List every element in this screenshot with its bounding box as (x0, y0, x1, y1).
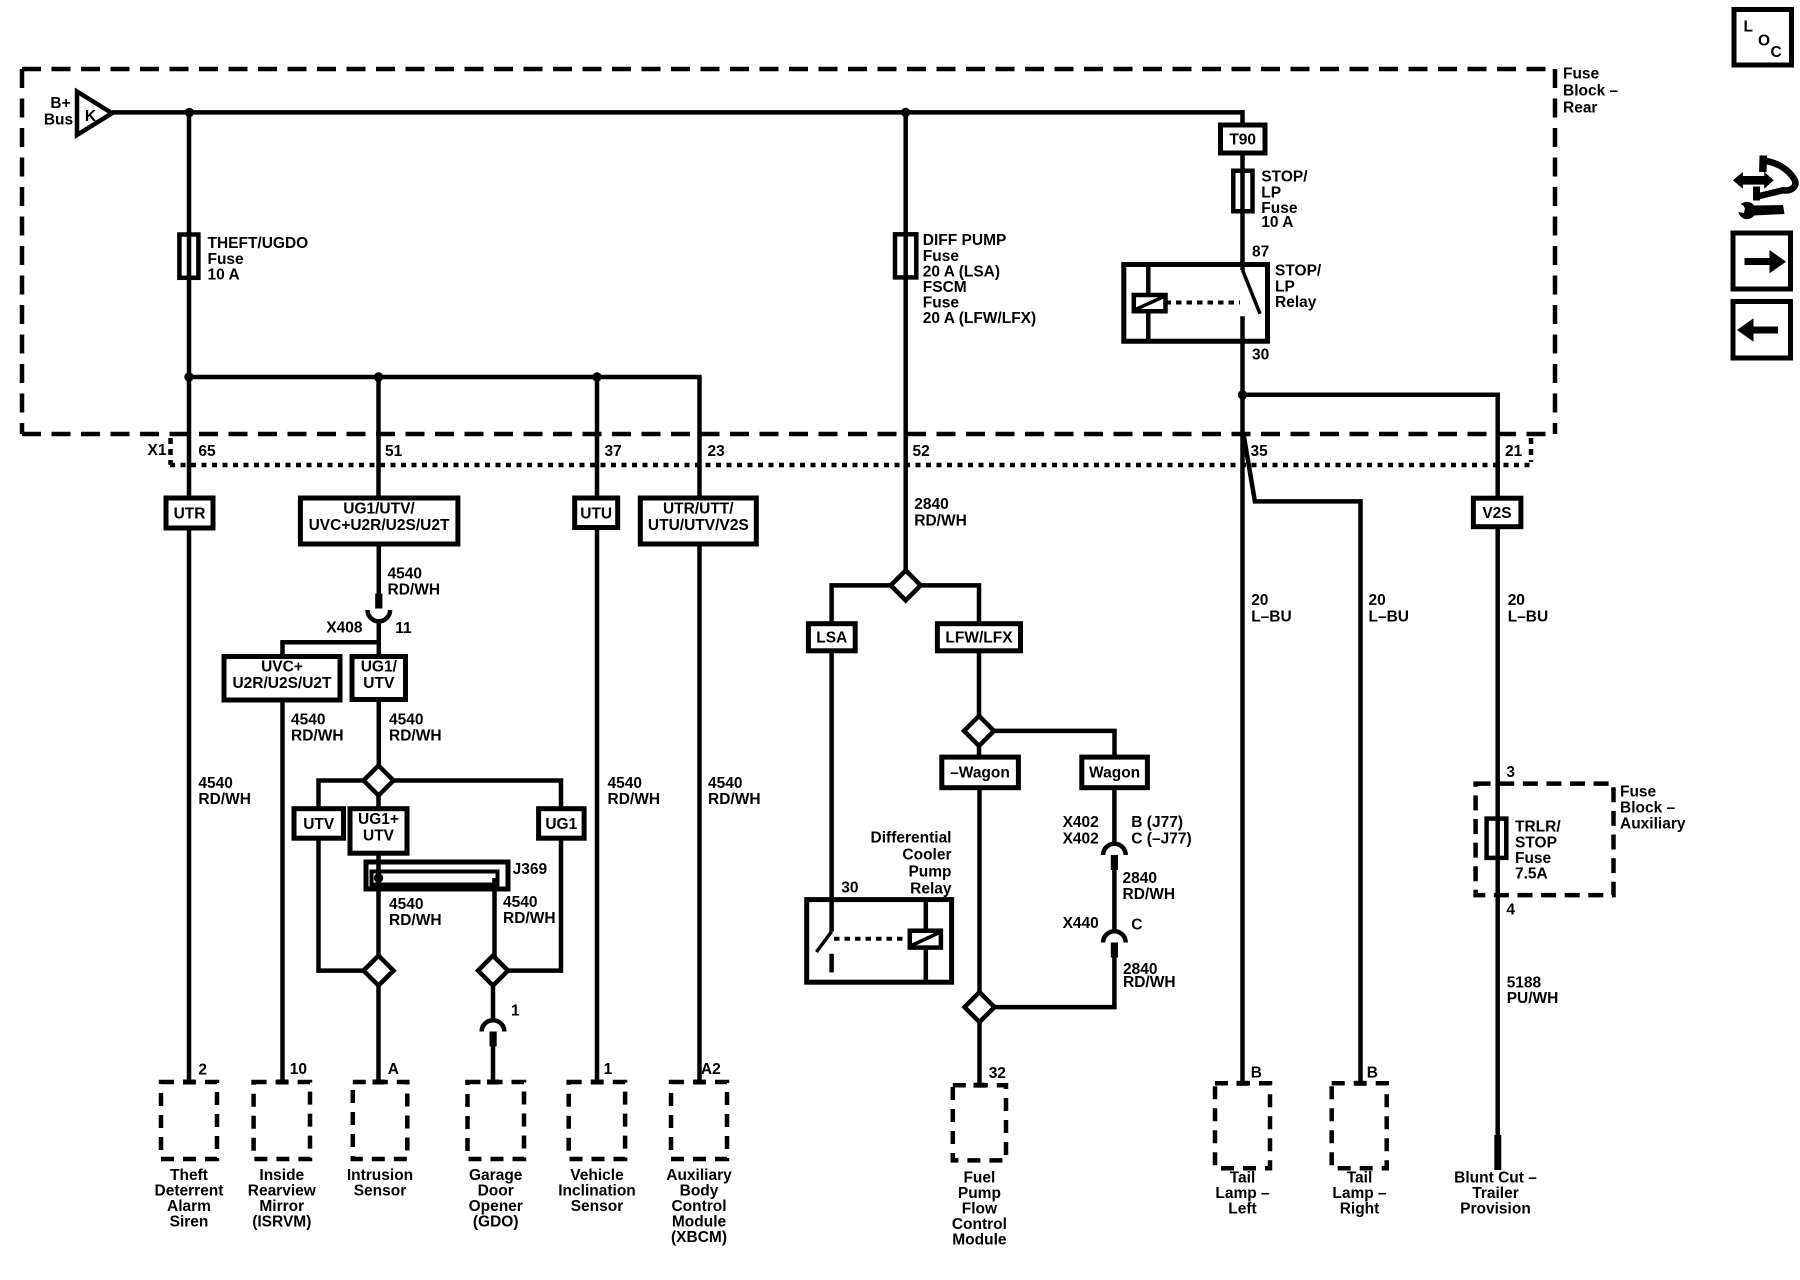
svg-text:LFW/LFX: LFW/LFX (945, 630, 1013, 647)
svg-text:LP: LP (1275, 279, 1295, 296)
svg-text:RD/WH: RD/WH (503, 910, 556, 927)
svg-text:B: B (1251, 1064, 1262, 1081)
wire to GDO connector (491, 986, 496, 1021)
wire diamond3 to FPFCM (977, 1022, 982, 1085)
wire 65 column to siren (187, 528, 192, 1082)
connector X408 pin 11 (326, 594, 412, 638)
svg-text:DIFF PUMP: DIFF PUMP (923, 232, 1007, 249)
svg-text:3: 3 (1506, 764, 1515, 781)
LFW/LFX box (937, 624, 1020, 651)
Auxiliary Body Control Module box (671, 1082, 727, 1159)
wire -Wagon to diamond3 (977, 788, 982, 992)
svg-text:(ISRVM): (ISRVM) (252, 1214, 311, 1231)
svg-text:Body: Body (680, 1183, 719, 1200)
STOP/LP fuse 10A (1233, 169, 1308, 232)
svg-text:L–BU: L–BU (1369, 609, 1409, 626)
svg-text:Inside: Inside (259, 1167, 304, 1184)
svg-text:Rearview: Rearview (248, 1183, 317, 1200)
junction dot (185, 108, 194, 117)
wire diamond to LFW/LFX (921, 585, 979, 623)
svg-text:Opener: Opener (469, 1198, 523, 1215)
svg-text:Right: Right (1340, 1200, 1380, 1217)
svg-text:21: 21 (1505, 443, 1523, 460)
UTU box (575, 498, 618, 528)
wire 51 below box (377, 544, 382, 595)
Intrusion Sensor box (353, 1082, 408, 1159)
svg-text:Module: Module (672, 1214, 727, 1231)
20 L-BU label left (1251, 592, 1291, 626)
svg-text:(XBCM): (XBCM) (671, 1229, 727, 1246)
svg-text:10 A: 10 A (208, 267, 240, 284)
4540 RD/WH label (503, 894, 556, 927)
svg-text:Tail: Tail (1230, 1169, 1256, 1186)
wire junction to pin 21 (1243, 395, 1498, 498)
svg-text:Trailer: Trailer (1472, 1185, 1519, 1202)
svg-text:RD/WH: RD/WH (389, 912, 442, 929)
Differential Cooler Pump Relay label (871, 830, 952, 898)
wire T90 to relay (1240, 153, 1245, 265)
Fuse Block - Auxiliary dashed box (1476, 784, 1614, 896)
junction dot (1238, 390, 1247, 399)
splice pack J369 (366, 861, 547, 889)
junction dot on J369 (374, 873, 383, 882)
svg-text:Mirror: Mirror (259, 1198, 304, 1215)
svg-text:RD/WH: RD/WH (389, 728, 442, 745)
svg-text:20: 20 (1369, 592, 1386, 609)
wire UG1 down (508, 838, 561, 970)
svg-text:37: 37 (605, 443, 622, 460)
Tail Lamp Right label (1332, 1169, 1387, 1217)
B+ Bus feed triangle K (44, 92, 112, 136)
2840 RD/WH label (1123, 870, 1176, 903)
20 L-BU label right (1508, 592, 1548, 626)
svg-text:30: 30 (841, 880, 858, 897)
svg-text:Intrusion: Intrusion (347, 1167, 413, 1184)
Tail Lamp Left box (1215, 1083, 1270, 1168)
svg-text:4540: 4540 (608, 775, 642, 792)
svg-text:X440: X440 (1063, 915, 1099, 932)
splice diamond 3 (965, 992, 995, 1022)
UVC+ U2R/U2S/U2T box (224, 657, 340, 701)
Garage Door Opener box (468, 1082, 525, 1159)
svg-text:11: 11 (395, 620, 412, 637)
svg-text:–Wagon: –Wagon (950, 765, 1010, 782)
svg-text:UVC+U2R/U2S/U2T: UVC+U2R/U2S/U2T (309, 517, 450, 534)
splice diamond 52 (891, 570, 921, 600)
connector pin 1 to GDO (482, 1003, 520, 1047)
Theft Deterrent Alarm Siren label (155, 1167, 224, 1231)
wire drop to T90 (1240, 110, 1245, 127)
svg-text:20: 20 (1508, 592, 1525, 609)
TRLR/STOP fuse 7.5A (1487, 819, 1562, 883)
svg-text:Block –: Block – (1563, 83, 1619, 100)
junction dot (592, 372, 601, 381)
svg-text:2840: 2840 (914, 496, 948, 513)
svg-text:65: 65 (198, 443, 216, 460)
svg-text:51: 51 (385, 443, 403, 460)
svg-text:Left: Left (1228, 1200, 1256, 1217)
UG1 box (539, 809, 585, 839)
wire terminal bars at component boxes (183, 1080, 1367, 1088)
svg-text:2840: 2840 (1123, 870, 1157, 887)
svg-text:4540: 4540 (503, 894, 537, 911)
svg-text:A: A (388, 1061, 399, 1078)
svg-text:(GDO): (GDO) (473, 1214, 519, 1231)
svg-text:RD/WH: RD/WH (388, 582, 441, 599)
left arrow icon (1733, 302, 1791, 359)
wire diamond to UG1 (394, 781, 562, 809)
svg-text:U2R/U2S/U2T: U2R/U2S/U2T (232, 675, 332, 692)
2840 RD/WH label pin52 (914, 496, 967, 530)
wire diamond to UTV (319, 781, 364, 809)
junction dot (184, 372, 193, 381)
svg-text:UTU: UTU (580, 506, 612, 523)
wire diamond to LSA (832, 585, 891, 623)
svg-text:V2S: V2S (1482, 505, 1511, 522)
svg-text:1: 1 (604, 1061, 613, 1078)
wire relay 30 to tail lamp left (1240, 341, 1245, 1083)
svg-text:LSA: LSA (816, 630, 847, 647)
svg-text:UTV: UTV (303, 816, 335, 833)
svg-text:Sensor: Sensor (571, 1198, 624, 1215)
20 L-BU label mid (1369, 592, 1409, 626)
svg-text:X1: X1 (148, 442, 167, 459)
svg-text:RD/WH: RD/WH (291, 728, 344, 745)
svg-text:RD/WH: RD/WH (1123, 974, 1176, 991)
svg-text:30: 30 (1252, 347, 1269, 364)
svg-text:4540: 4540 (389, 896, 423, 913)
svg-text:UG1/UTV/: UG1/UTV/ (343, 501, 415, 518)
4540 RD/WH label (388, 566, 441, 599)
svg-text:RD/WH: RD/WH (198, 791, 251, 808)
svg-text:Control: Control (671, 1198, 726, 1215)
wire V2S to blunt cut (1495, 527, 1500, 1137)
wire 37 column to sensor (595, 528, 600, 1083)
UTV box (294, 809, 344, 839)
4540 RD/WH label (708, 775, 761, 808)
STOP/LP relay (1124, 265, 1268, 342)
junction dot (374, 372, 383, 381)
svg-text:L: L (1744, 18, 1753, 35)
svg-text:1: 1 (511, 1003, 520, 1020)
wire to GDO box (491, 1047, 496, 1083)
wire UVC+ to ISRVM (280, 700, 285, 1082)
4540 RD/WH label (389, 896, 442, 929)
blunt cut end (1494, 1135, 1501, 1170)
svg-text:STOP/: STOP/ (1275, 263, 1322, 280)
Tail Lamp Right box (1332, 1083, 1387, 1168)
svg-text:UVC+: UVC+ (261, 659, 303, 676)
svg-text:Rear: Rear (1563, 100, 1597, 117)
V2S box (1473, 498, 1521, 527)
svg-text:Module: Module (952, 1231, 1007, 1248)
branch wire to tail lamp right (1244, 434, 1361, 1083)
svg-text:32: 32 (989, 1065, 1006, 1082)
splice diamond 2 (964, 716, 994, 746)
svg-text:Tail: Tail (1347, 1169, 1373, 1186)
svg-text:35: 35 (1251, 443, 1269, 460)
UG1/UTV/UVC+ box (300, 498, 458, 544)
Theft Deterrent Alarm Siren box (161, 1082, 217, 1159)
connector X402 (1063, 814, 1192, 870)
svg-text:Fuse: Fuse (923, 248, 960, 265)
svg-text:Relay: Relay (910, 881, 952, 898)
svg-text:X402: X402 (1063, 814, 1099, 831)
svg-text:UG1/: UG1/ (361, 659, 398, 676)
wire LSA to relay (829, 651, 834, 900)
Fuse Block - Auxiliary label (1620, 784, 1686, 833)
wire to intrusion sensor (376, 986, 381, 1082)
Fuse Block - Rear dashed box (22, 69, 1555, 434)
Garage Door Opener label (469, 1167, 523, 1231)
svg-text:20: 20 (1251, 592, 1268, 609)
4540 RD/WH label (389, 712, 442, 745)
svg-text:87: 87 (1252, 244, 1269, 261)
svg-text:4: 4 (1506, 902, 1515, 919)
wire pin 37 drop (595, 377, 600, 498)
svg-text:Auxiliary: Auxiliary (666, 1167, 732, 1184)
svg-text:C: C (1131, 917, 1142, 934)
LSA box (808, 624, 855, 651)
svg-text:Block –: Block – (1620, 800, 1676, 817)
Intrusion Sensor label (347, 1167, 413, 1200)
wire X402 to X440 (1112, 870, 1117, 932)
svg-text:Auxiliary: Auxiliary (1620, 816, 1686, 833)
svg-text:UG1: UG1 (545, 816, 577, 833)
svg-text:J369: J369 (513, 861, 548, 878)
wire X440 to diamond3 (995, 958, 1115, 1008)
main B+ bus wire (112, 110, 1243, 115)
svg-text:Differential: Differential (871, 830, 952, 847)
manifold wire 65-23 (189, 377, 700, 498)
wire 23 column to XBCM (697, 544, 702, 1082)
wire diamond2 to Wagon (994, 731, 1115, 757)
svg-text:20 A (LSA): 20 A (LSA) (923, 264, 1000, 281)
svg-text:Siren: Siren (170, 1214, 209, 1231)
svg-text:RD/WH: RD/WH (608, 791, 661, 808)
right arrow icon (1733, 233, 1791, 289)
svg-text:RD/WH: RD/WH (708, 791, 761, 808)
svg-text:Wagon: Wagon (1089, 765, 1140, 782)
svg-text:10 A: 10 A (1261, 214, 1293, 231)
wire diamond2 to -Wagon (977, 746, 982, 757)
svg-text:L–BU: L–BU (1251, 609, 1291, 626)
svg-text:Garage: Garage (469, 1167, 523, 1184)
4540 RD/WH label (291, 712, 344, 745)
svg-text:Pump: Pump (958, 1185, 1001, 1202)
Fuse Block - Rear label (1563, 66, 1619, 117)
splice diamond left (364, 956, 394, 986)
splice diamond (364, 766, 394, 796)
4540 RD/WH label (608, 775, 661, 808)
svg-text:T90: T90 (1229, 132, 1256, 149)
svg-text:Blunt Cut –: Blunt Cut – (1454, 1169, 1537, 1186)
junction dot (901, 108, 910, 117)
svg-text:STOP/: STOP/ (1261, 169, 1308, 186)
wire UTV down (319, 838, 364, 970)
svg-text:2: 2 (198, 1062, 207, 1079)
Auxiliary Body Control Module label (666, 1167, 732, 1246)
wire LFW/LFX to diamond2 (977, 651, 982, 716)
svg-text:23: 23 (708, 443, 726, 460)
Blunt Cut - Trailer Provision label (1454, 1169, 1537, 1217)
svg-text:52: 52 (913, 443, 930, 460)
UG1/UTV box (352, 657, 406, 700)
2840 RD/WH label (1123, 961, 1176, 991)
wire Wagon to X402 (1112, 788, 1117, 845)
svg-text:X402: X402 (1063, 831, 1099, 848)
svg-text:C: C (1771, 44, 1782, 61)
connector X440 (1063, 915, 1143, 957)
Tail Lamp Left label (1215, 1169, 1270, 1217)
Vehicle Inclination Sensor label (558, 1167, 636, 1215)
svg-text:A2: A2 (701, 1061, 721, 1078)
svg-text:THEFT/UGDO: THEFT/UGDO (208, 235, 309, 252)
svg-text:5188: 5188 (1507, 975, 1542, 992)
T90 box (1221, 125, 1266, 153)
svg-text:7.5A: 7.5A (1515, 866, 1548, 883)
svg-text:FSCM: FSCM (923, 279, 967, 296)
svg-text:B (J77): B (J77) (1131, 814, 1183, 831)
wrench icon (1735, 202, 1785, 219)
svg-text:B: B (1367, 1064, 1378, 1081)
svg-text:Fuse: Fuse (1620, 784, 1657, 801)
svg-text:X408: X408 (326, 620, 363, 637)
svg-text:Relay: Relay (1275, 294, 1317, 311)
svg-text:Deterrent: Deterrent (155, 1183, 224, 1200)
Fuel Pump Flow Control Module label (952, 1169, 1007, 1248)
svg-text:UTR/UTT/: UTR/UTT/ (663, 501, 734, 518)
svg-text:Alarm: Alarm (167, 1198, 211, 1215)
wire UG1+UTV through J369 to diamond (376, 853, 381, 956)
svg-text:RD/WH: RD/WH (1123, 886, 1176, 903)
svg-text:Inclination: Inclination (558, 1183, 636, 1200)
svg-text:4540: 4540 (389, 712, 423, 729)
svg-text:UG1+: UG1+ (358, 811, 399, 828)
-Wagon box (942, 757, 1019, 788)
svg-text:O: O (1758, 32, 1770, 49)
svg-text:UTR: UTR (174, 506, 206, 523)
svg-text:4540: 4540 (291, 712, 325, 729)
svg-text:Control: Control (952, 1216, 1007, 1233)
UTR box (166, 498, 213, 528)
svg-text:L–BU: L–BU (1508, 609, 1548, 626)
wire below X408 (377, 619, 382, 657)
Differential Cooler Pump Relay (807, 900, 952, 983)
svg-text:RD/WH: RD/WH (914, 513, 967, 530)
reroute arrows icon (1733, 156, 1796, 201)
splice diamond right (478, 956, 508, 986)
svg-text:TRLR/: TRLR/ (1515, 819, 1561, 836)
wire UG1/UTV to diamond (377, 700, 382, 766)
svg-text:Cooler: Cooler (902, 847, 951, 864)
svg-text:K: K (85, 108, 97, 125)
LOC icon box (1734, 10, 1792, 66)
svg-text:LP: LP (1261, 185, 1281, 202)
svg-text:UTV: UTV (363, 675, 395, 692)
wire 52 from bus to diamond (903, 112, 908, 570)
svg-text:Fuel: Fuel (963, 1169, 995, 1186)
Vehicle Inclination Sensor box (569, 1082, 625, 1159)
svg-text:10: 10 (290, 1061, 307, 1078)
Fuel Pump Flow Control Module box (953, 1085, 1006, 1160)
wire from bus through fuse to manifold (187, 112, 192, 377)
svg-text:STOP: STOP (1515, 835, 1557, 852)
svg-text:UTU/UTV/V2S: UTU/UTV/V2S (648, 517, 749, 534)
svg-text:Flow: Flow (962, 1200, 998, 1217)
svg-text:4540: 4540 (198, 775, 232, 792)
svg-text:4540: 4540 (708, 775, 742, 792)
5188 PU/WH label (1507, 975, 1559, 1008)
wire pin 51 drop (376, 377, 381, 498)
svg-text:Fuse: Fuse (1563, 66, 1600, 83)
UTR/UTT/UTU/UTV/V2S box (640, 498, 756, 544)
svg-text:4540: 4540 (388, 566, 422, 583)
svg-text:Provision: Provision (1460, 1200, 1531, 1217)
svg-text:C (–J77): C (–J77) (1131, 831, 1191, 848)
svg-text:PU/WH: PU/WH (1507, 990, 1559, 1007)
STOP/LP Relay label (1275, 263, 1322, 311)
svg-text:Fuse: Fuse (208, 251, 245, 268)
Wagon box (1082, 757, 1148, 788)
Inside Rearview Mirror label (248, 1167, 317, 1231)
svg-text:Theft: Theft (170, 1167, 208, 1184)
UG1+UTV box (350, 809, 407, 854)
THEFT/UGDO fuse (179, 235, 308, 284)
4540 RD/WH label (198, 775, 251, 808)
svg-text:Bus: Bus (44, 112, 73, 129)
branch wire to UVC+ box (283, 642, 379, 656)
svg-text:Pump: Pump (908, 864, 951, 881)
wire pin 65 drop (187, 377, 192, 498)
svg-text:Vehicle: Vehicle (570, 1167, 624, 1184)
wire J369 right tap (492, 878, 497, 956)
DIFF PUMP fuse (895, 232, 1036, 327)
svg-text:Lamp –: Lamp – (1332, 1185, 1387, 1202)
wire diamond to UG1+UTV (376, 796, 381, 809)
svg-text:20 A (LFW/LFX): 20 A (LFW/LFX) (923, 310, 1036, 327)
svg-text:Door: Door (478, 1183, 514, 1200)
X1 connector row (22, 434, 1555, 465)
svg-text:UTV: UTV (363, 828, 395, 845)
svg-text:Sensor: Sensor (354, 1183, 407, 1200)
svg-text:Fuse: Fuse (923, 295, 960, 312)
svg-text:Lamp –: Lamp – (1215, 1185, 1270, 1202)
svg-text:B+: B+ (50, 95, 70, 112)
Inside Rearview Mirror box (254, 1082, 310, 1159)
svg-text:Fuse: Fuse (1515, 850, 1552, 867)
